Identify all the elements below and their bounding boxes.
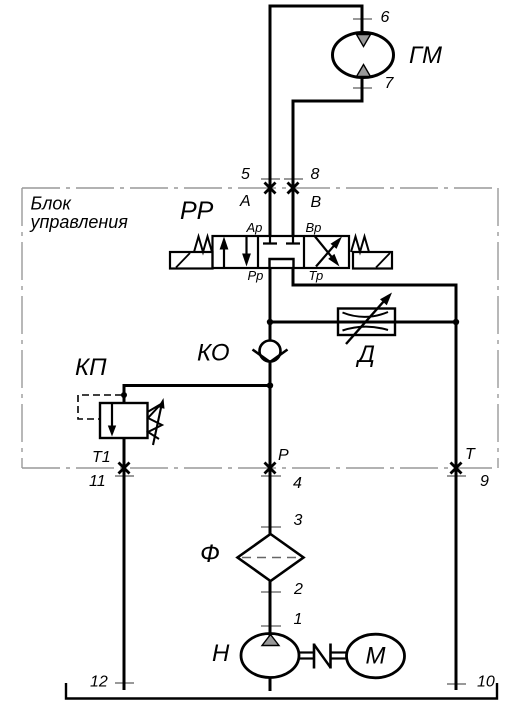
valve sq1 up arrow bbox=[223, 244, 225, 267]
junction dot pilot bbox=[121, 392, 127, 398]
svg-text:управления: управления bbox=[29, 212, 129, 232]
svg-text:Блок: Блок bbox=[31, 194, 73, 214]
node 5 marker bbox=[265, 183, 276, 194]
junction dot relief branch bbox=[267, 382, 273, 388]
pump N bbox=[241, 634, 299, 678]
junction dot throttle left bbox=[267, 319, 273, 325]
gray connection ticks bbox=[115, 19, 466, 684]
relief valve adjust arrow bbox=[153, 403, 162, 445]
svg-text:2: 2 bbox=[293, 581, 303, 598]
svg-text:ГМ: ГМ bbox=[409, 42, 442, 69]
shaft coupling bbox=[299, 644, 347, 669]
svg-text:T: T bbox=[465, 446, 476, 463]
valve left spring bbox=[194, 237, 212, 253]
tick 1 bbox=[261, 625, 281, 627]
check valve KO bbox=[260, 341, 281, 362]
svg-text:3: 3 bbox=[294, 512, 303, 529]
tick 5 bbox=[261, 178, 280, 180]
svg-text:B: B bbox=[311, 194, 322, 211]
node T marker bbox=[451, 463, 462, 474]
svg-text:Ф: Ф bbox=[200, 540, 220, 568]
svg-text:РР: РР bbox=[180, 197, 214, 225]
wire: Tp over and down to T bbox=[293, 268, 456, 690]
wire: throttle branch bbox=[270, 321, 456, 324]
tick 3 bbox=[261, 526, 281, 528]
svg-text:5: 5 bbox=[241, 166, 250, 183]
svg-text:Вр: Вр bbox=[306, 220, 322, 235]
tick 9 bbox=[447, 475, 466, 477]
svg-text:10: 10 bbox=[477, 674, 495, 691]
svg-text:КО: КО bbox=[197, 340, 230, 367]
node T1 marker bbox=[119, 463, 130, 474]
svg-text:Д: Д bbox=[355, 341, 375, 368]
wire: node A up over to motor top bbox=[270, 6, 362, 188]
svg-text:Рр: Рр bbox=[248, 268, 264, 283]
tick 8 bbox=[284, 178, 303, 180]
valve sq3 crossed arrows bbox=[315, 237, 334, 260]
wire: B line to valve bbox=[292, 188, 295, 236]
svg-text:1: 1 bbox=[294, 611, 303, 628]
valve left solenoid bbox=[170, 252, 213, 269]
pilot dashed line bbox=[78, 395, 122, 419]
svg-text:11: 11 bbox=[89, 473, 106, 490]
wire: T1 line down bbox=[123, 438, 126, 690]
valve RR body bbox=[213, 236, 350, 268]
control block boundary (dash-dot) bbox=[22, 188, 498, 468]
hydraulic motor GM bbox=[333, 33, 394, 78]
svg-text:4: 4 bbox=[293, 475, 302, 492]
tick 11 bbox=[115, 475, 134, 477]
svg-text:P: P bbox=[278, 447, 289, 464]
valve right solenoid bbox=[353, 252, 392, 269]
electric motor M bbox=[347, 634, 405, 678]
svg-text:6: 6 bbox=[381, 9, 390, 26]
svg-text:Ар: Ар bbox=[246, 220, 263, 235]
svg-text:12: 12 bbox=[90, 674, 108, 691]
valve sq2 blocked port B bbox=[286, 236, 300, 244]
tick 2 bbox=[261, 591, 281, 593]
throttle D bbox=[338, 309, 395, 336]
svg-text:9: 9 bbox=[480, 473, 489, 490]
valve right spring bbox=[351, 237, 369, 253]
valve sq1 down arrow bbox=[245, 237, 247, 259]
svg-text:A: A bbox=[239, 193, 251, 210]
tick 12 bbox=[115, 682, 134, 684]
svg-text:Н: Н bbox=[212, 640, 230, 667]
wire: P line valve to pump bbox=[269, 268, 272, 691]
relief valve spring bbox=[148, 404, 163, 439]
svg-text:Тр: Тр bbox=[309, 268, 324, 283]
node P marker bbox=[265, 463, 276, 474]
svg-text:8: 8 bbox=[311, 166, 320, 183]
svg-text:М: М bbox=[366, 643, 386, 670]
node 8 marker bbox=[288, 183, 299, 194]
valve sq2 P-T channel bbox=[270, 259, 294, 268]
junction dot throttle right bbox=[453, 319, 459, 325]
svg-text:T1: T1 bbox=[92, 449, 111, 466]
tick 6 bbox=[353, 18, 372, 20]
tick 4 bbox=[261, 475, 281, 477]
wire: node B up over to motor bottom bbox=[293, 78, 362, 188]
wire: relief branch bbox=[124, 386, 270, 404]
svg-text:7: 7 bbox=[385, 75, 395, 92]
tick 7 bbox=[353, 87, 372, 89]
tank bracket bbox=[66, 683, 497, 699]
filter F bbox=[238, 534, 304, 581]
valve sq2 blocked port A bbox=[263, 236, 277, 244]
wire: A line to valve bbox=[269, 188, 272, 236]
relief valve KP bbox=[100, 403, 148, 438]
svg-text:КП: КП bbox=[75, 354, 107, 381]
tick 10 bbox=[447, 683, 466, 685]
